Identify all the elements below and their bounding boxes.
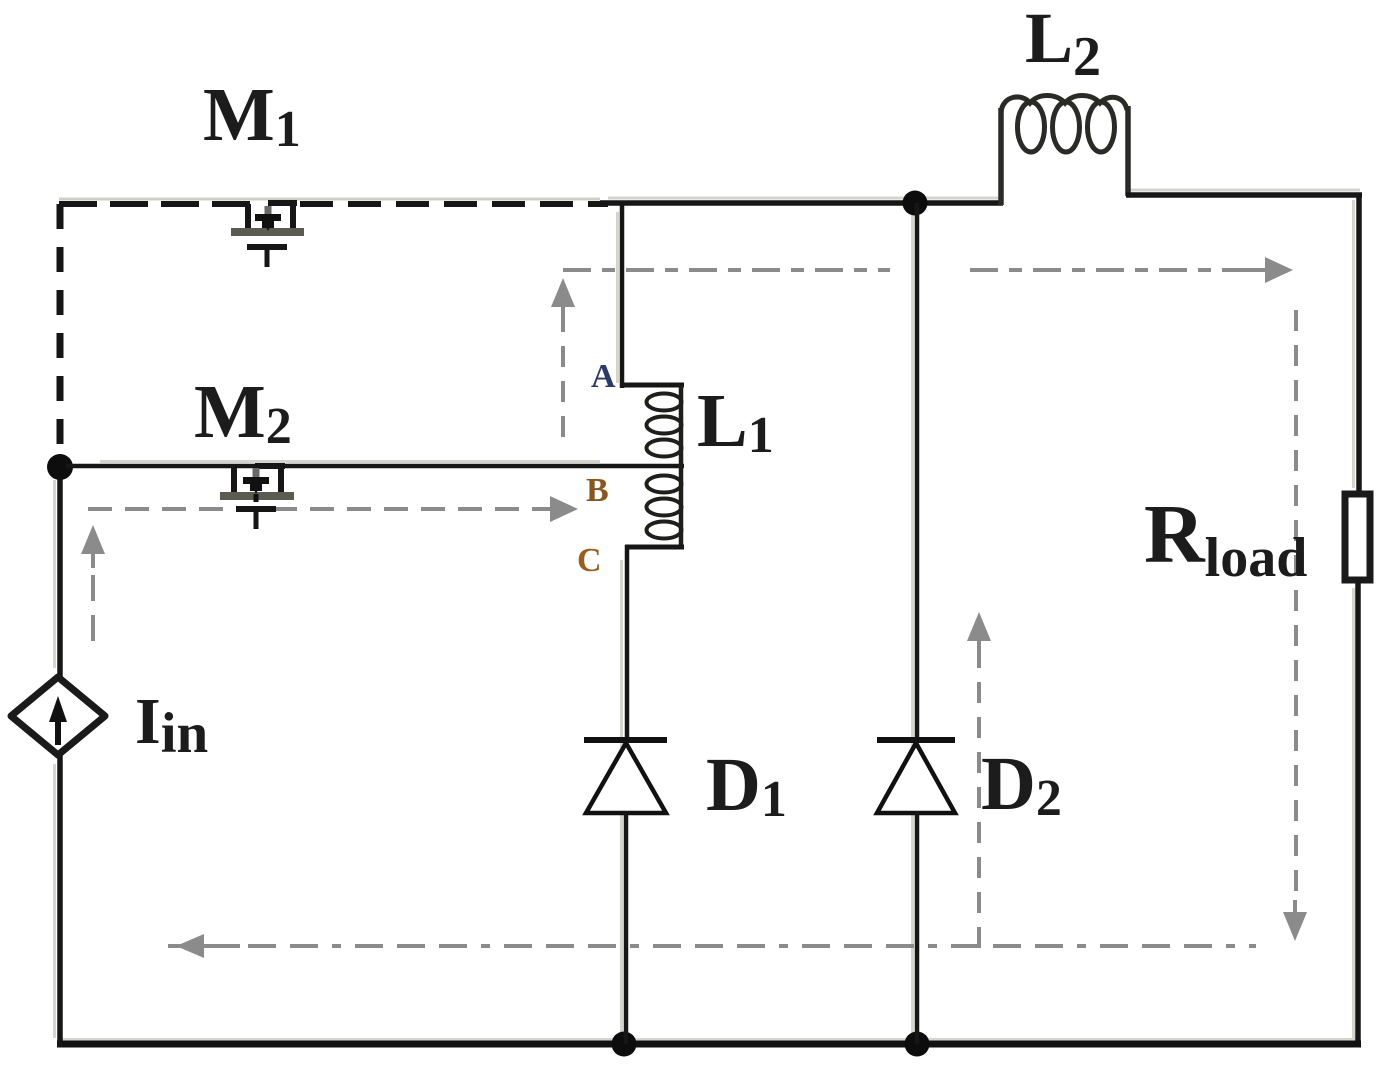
wire: L1 top horizontal jog (node A) (620, 383, 684, 388)
wire: top right horizontal after L2 (1126, 192, 1362, 198)
node: junction dot left (M2 tap) (47, 454, 73, 480)
node: junction dot at top (D2 / L2) (903, 191, 928, 216)
wire: right vertical lower (Rload to bottom) (1355, 580, 1361, 1046)
wire: D2 top vertical (915, 203, 920, 742)
diode D1 (584, 740, 667, 813)
flow path: middle vertical near L1 (gray dashed, arrow up) (551, 278, 575, 437)
wire: D1 top vertical (625, 545, 630, 742)
flow path: bottom horizontal (gray dash-dot, arrow left) (168, 934, 1256, 958)
flow path: middle horizontal at y=270 (gray dash-dot) (563, 268, 890, 272)
flow path: right vertical (gray dashed, arrow down) (1283, 310, 1307, 941)
wire: right vertical upper (to Rload) (1356, 193, 1362, 496)
wire: L1 bottom horizontal jog (node C) (625, 545, 684, 550)
wire: top solid horizontal (node between L1, D2, L2) (600, 200, 1003, 206)
wire: M2 branch horizontal (66, 464, 684, 469)
svg-text:A: A (591, 358, 616, 395)
wire: bottom return (57, 1041, 1361, 1048)
current source Iin (diamond with up arrow) (11, 677, 105, 755)
node: junction dot bottom D2 (905, 1032, 930, 1057)
transistor M1 (231, 203, 304, 267)
flow path: left loop vertical (gray dashed, arrow up) (81, 525, 105, 641)
transistor M2 (220, 466, 294, 529)
inductor L1 (vertical coil) (647, 385, 682, 547)
wire: L1 top vertical (620, 203, 625, 388)
resistor Rload (1345, 494, 1370, 580)
wire: left vertical (source branch) (57, 458, 63, 678)
flow path: top right horizontal (gray dash-dot, arrow right) (970, 257, 1293, 283)
wire: D2 bottom vertical (915, 811, 920, 1044)
flow path: D2 vertical (gray dashed, arrow up) (967, 612, 991, 948)
wire: D1 bottom vertical (624, 811, 629, 1044)
node: junction dot bottom D1 (612, 1032, 637, 1057)
inductor L2 (horizontal coil, top right) (1001, 96, 1128, 206)
svg-text:B: B (586, 472, 609, 509)
svg-text:C: C (577, 542, 602, 579)
wire: left dashed vertical (M1 branch) (57, 204, 64, 462)
wire shadow artifacts (light grey parallels) (55, 190, 1361, 1040)
diode D2 (877, 740, 955, 813)
flow path: left loop horizontal (gray dashed, arrow right) (88, 496, 578, 522)
wire: top dashed branch through M1 (horizontal) (59, 199, 608, 204)
